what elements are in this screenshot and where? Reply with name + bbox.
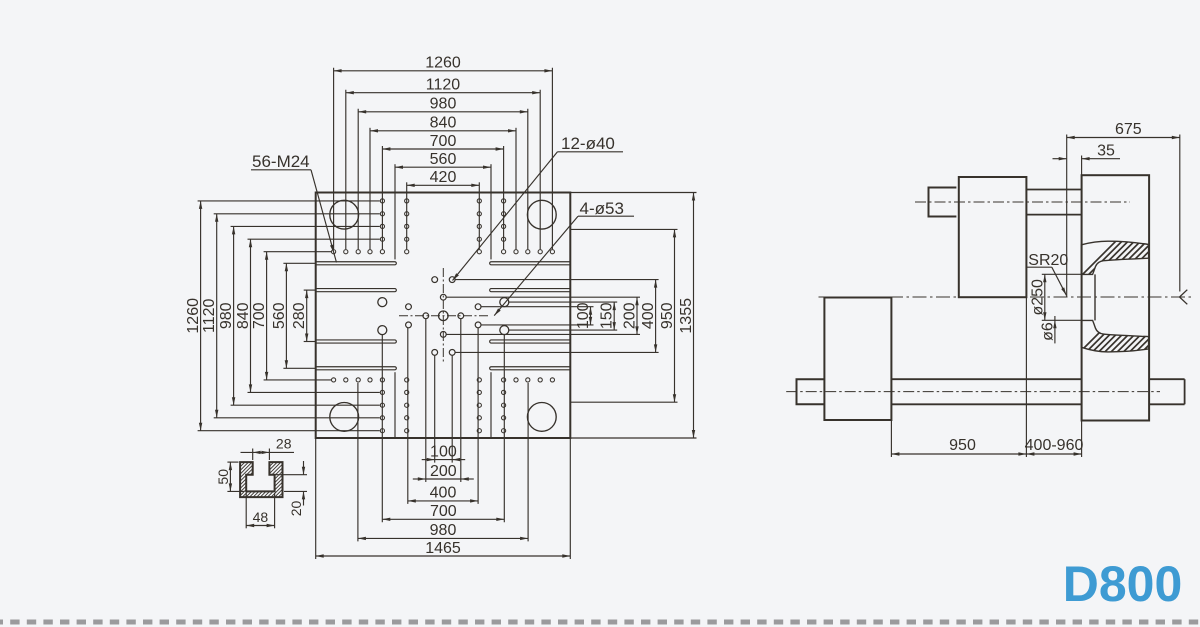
lower tie bar (891, 378, 1081, 380)
svg-text:ø6: ø6 (1039, 322, 1056, 341)
svg-text:420: 420 (430, 169, 457, 186)
main centerline (819, 296, 1193, 298)
svg-text:1120: 1120 (426, 77, 461, 94)
tie-bar holes (330, 200, 359, 229)
svg-text:1260: 1260 (185, 298, 202, 334)
fixed platen block (1082, 175, 1150, 420)
svg-text:980: 980 (430, 522, 457, 539)
svg-text:280: 280 (291, 302, 308, 329)
svg-text:35: 35 (1097, 143, 1115, 160)
svg-text:1260: 1260 (425, 55, 461, 72)
T-slots left (316, 262, 397, 265)
dims 950 and 400-960 (891, 453, 1026, 455)
right dimension chain (590, 307, 592, 325)
4-ø53 holes (378, 298, 387, 307)
svg-text:28: 28 (276, 435, 292, 451)
svg-text:840: 840 (235, 302, 252, 329)
svg-text:1355: 1355 (678, 298, 695, 334)
svg-text:1120: 1120 (201, 298, 218, 333)
detail dim 20 (271, 474, 307, 476)
lower centerline (786, 391, 1160, 393)
upper tie bar between platens (1026, 189, 1081, 191)
side view: moving platen (959, 177, 1027, 297)
detail dim 50 (227, 461, 238, 463)
lower rod end stub (797, 379, 825, 404)
svg-text:560: 560 (271, 302, 288, 329)
svg-text:100: 100 (430, 443, 457, 460)
corner pocket inner edges (394, 193, 396, 260)
dim 35 (1053, 158, 1067, 160)
centerlines (442, 268, 444, 364)
svg-text:700: 700 (251, 302, 268, 329)
svg-text:560: 560 (430, 151, 457, 168)
moving platen face extension (1025, 297, 1027, 457)
svg-text:20: 20 (288, 501, 304, 517)
bore step edge (1094, 274, 1096, 320)
dim ø6 (1054, 316, 1056, 343)
svg-text:48: 48 (253, 509, 269, 525)
56-M24 bolt holes corner grids (380, 199, 384, 203)
bottom dimension chain (435, 459, 453, 461)
detail dim 28 (252, 449, 254, 461)
T-slots right (490, 262, 571, 265)
svg-text:980: 980 (218, 302, 235, 329)
platen front view outline (316, 193, 571, 439)
svg-text:56-M24: 56-M24 (252, 152, 310, 171)
dim ø250 (1042, 273, 1082, 275)
svg-text:950: 950 (659, 302, 676, 329)
svg-text:700: 700 (430, 503, 457, 520)
upper tie-bar centerline (915, 201, 1130, 203)
svg-text:4-ø53: 4-ø53 (580, 199, 624, 218)
svg-text:D800: D800 (1063, 556, 1183, 612)
svg-text:400-960: 400-960 (1025, 437, 1084, 454)
svg-text:200: 200 (430, 463, 457, 480)
side view: upper tie-bar end stub (929, 188, 957, 217)
svg-text:SR20: SR20 (1028, 252, 1068, 269)
center hole pattern 12-ø40 (423, 313, 429, 319)
svg-text:200: 200 (622, 302, 639, 329)
svg-text:1465: 1465 (425, 540, 461, 557)
svg-text:400: 400 (430, 485, 457, 502)
clamping cylinder block (824, 298, 891, 421)
bottom dashed border (0, 620, 1200, 625)
svg-text:12-ø40: 12-ø40 (561, 134, 615, 153)
svg-text:ø250: ø250 (1029, 279, 1046, 316)
top dimension chain (334, 70, 553, 72)
svg-text:50: 50 (215, 469, 231, 485)
detail dim 48 (245, 493, 247, 528)
nozzle contact open arrow (1180, 290, 1188, 297)
svg-text:840: 840 (430, 115, 457, 132)
left dimension chain (200, 201, 202, 431)
svg-text:700: 700 (430, 133, 457, 150)
svg-text:150: 150 (599, 302, 616, 329)
dim 675 (1067, 137, 1180, 139)
svg-text:950: 950 (949, 437, 976, 454)
svg-text:980: 980 (430, 96, 457, 113)
svg-text:675: 675 (1115, 121, 1142, 138)
svg-text:400: 400 (640, 302, 657, 329)
center locating hole (439, 311, 449, 321)
